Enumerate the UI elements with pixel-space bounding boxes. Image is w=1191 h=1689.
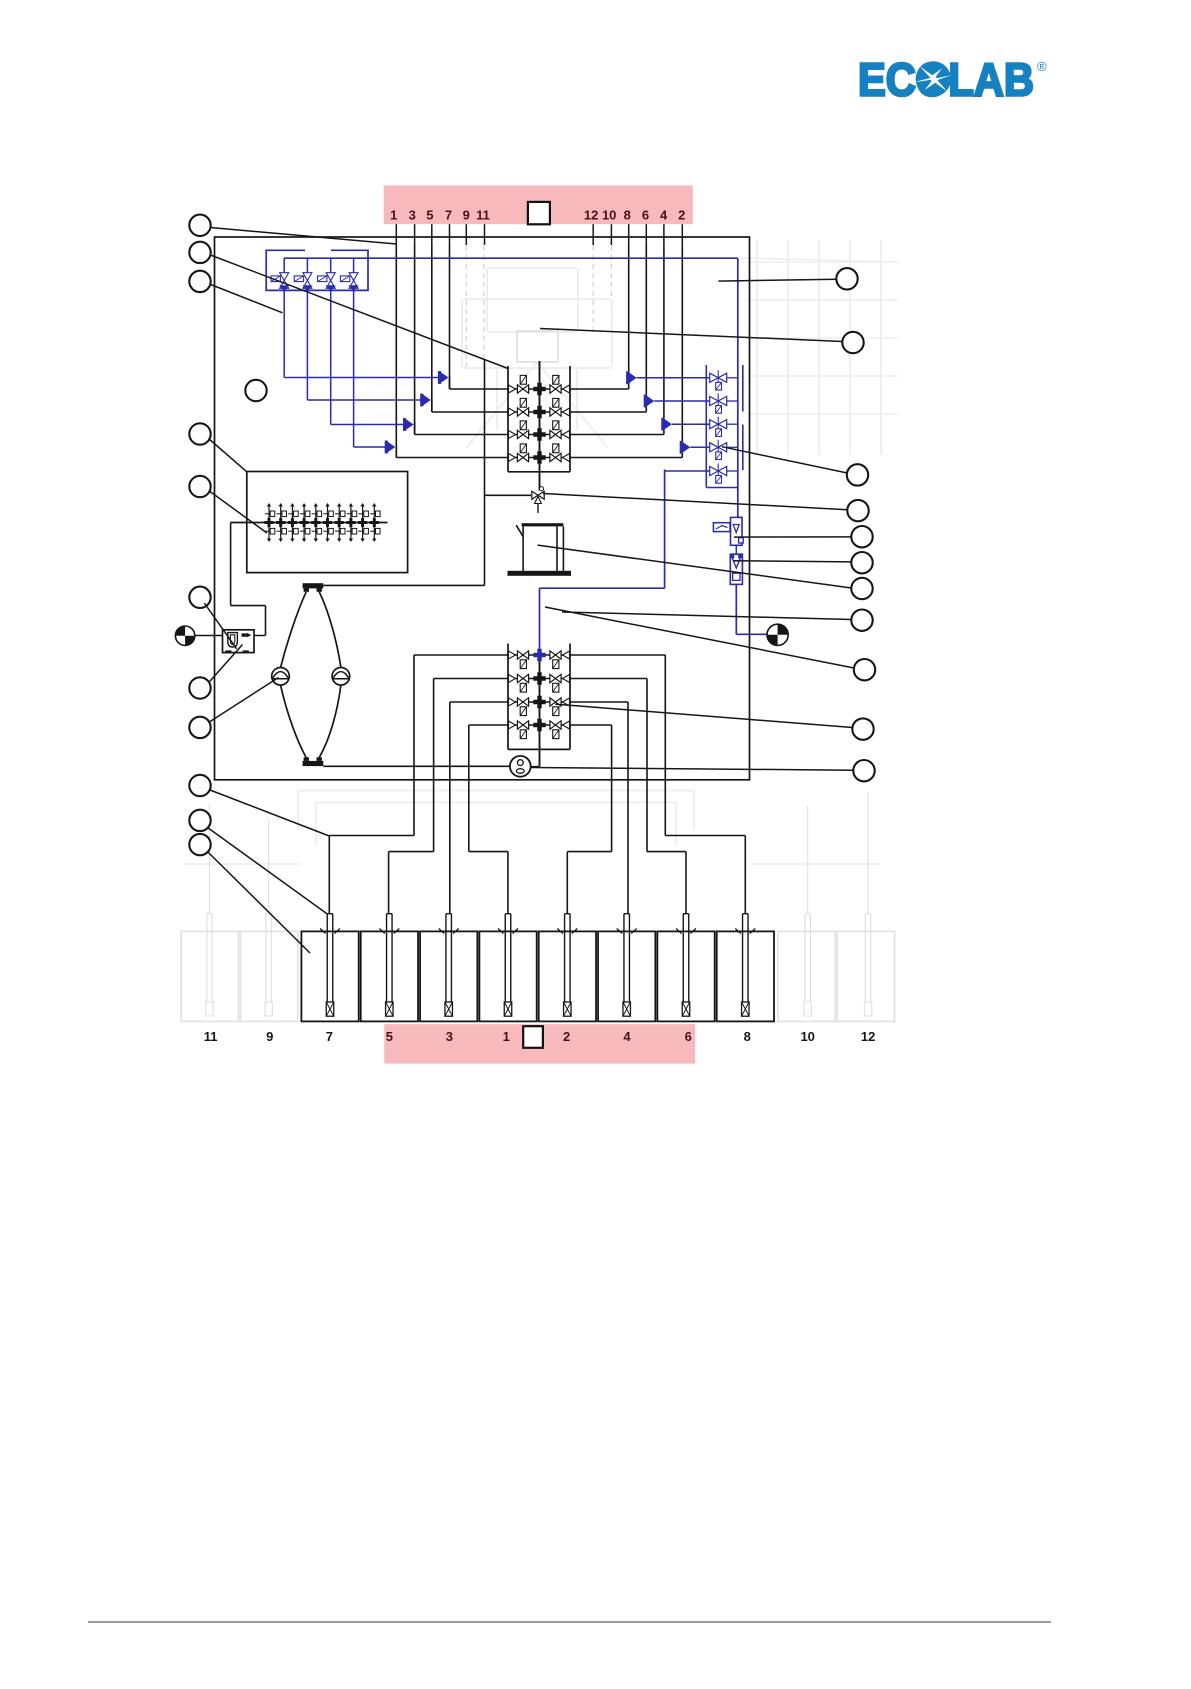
pilot line Y3 to column 3 [330,293,332,425]
svg-text:1: 1 [390,208,397,223]
ghost faded duplicate schematic (background watermark) [181,240,898,1021]
manifold row 1 node [533,383,545,395]
pressure switch attachment [713,523,730,532]
routing line to lance 3 [449,702,451,914]
sampling valve 5 feed line [665,470,710,472]
suction lance 7 [682,914,684,1002]
dosing manifold valve 4 [303,505,305,541]
svg-text:11: 11 [204,1029,218,1044]
dosing valve row 1 right [550,651,561,659]
leader L3 to pilot tubing [211,285,283,313]
callout circle R7 [851,578,872,599]
rinse water tank [522,523,564,526]
flush valve [532,491,544,499]
manifold valve row 4 right [550,453,561,461]
dosing row 4 left line [469,724,612,726]
leader R11 to flow meter [531,768,853,771]
sampling valve 3 [710,420,727,429]
callout circle R4 [847,500,868,521]
svg-text:®: ® [1037,59,1047,74]
dosing manifold valve 6 [327,505,329,541]
svg-text:2: 2 [678,208,685,223]
backflow preventer box [223,630,255,653]
pilot solenoid valve Y3 [330,258,332,292]
dosing row 2 right line [563,675,570,683]
dosing valve row 4 right [550,721,561,729]
routing line to lance 8 [664,655,666,836]
leader R5 to pressure device [734,536,851,538]
solenoid pilot valve box [266,250,368,290]
pilot arrow column 2 to sampling valve 4 [680,441,683,454]
supply line ticks below band (all channels) [395,224,397,245]
pilot arrow column 4 to sampling valve 3 [661,418,664,431]
sampling valve 1 [710,373,727,382]
leader R10 to dosing valve [555,704,852,727]
routing line to lance 1 [468,725,470,852]
svg-text:9: 9 [463,208,470,223]
callout circle L3 [189,271,210,292]
supply column 11 down to flush valve line [484,360,486,585]
manifold row 2 right feed from column 6 [563,408,570,416]
bottom pink highlight band [384,1024,695,1063]
leader L7 to water meter arrow [210,645,243,682]
dosing manifold valve 3 [291,505,293,541]
leader L5 to dosing manifold valves [209,491,267,533]
pilot arrow column 6 to sampling valve 2 [644,395,647,408]
dosing row 3 right line [563,698,570,706]
dosing row 1 node [533,649,545,661]
leader L2 to central manifold [210,255,508,369]
manifold row 3 node [533,428,545,440]
leader R7 to rinse tank [538,545,852,588]
supply column 2 [681,245,683,458]
pilot line Y2 to column 5 [306,293,308,401]
product container 5 [539,931,596,1021]
product container 8 [717,931,774,1021]
callout circle L8 [189,717,210,738]
callout circle L6 [189,587,210,608]
svg-text:5: 5 [386,1029,393,1044]
leader L10 to suction lance [208,828,329,915]
leader R8 to return line [562,612,851,620]
leader L8 to dosing pump [209,678,278,723]
routing line to lance 4 [627,702,629,914]
leader R9 to blue return [545,607,854,668]
sampling valve 4 [710,443,727,452]
callout circle R8 [851,610,872,631]
dosing row 2 left line [434,678,647,680]
flush valve line from column 11 [485,494,532,496]
leader R3 to sampling valve [722,447,848,473]
product container 1 [301,931,358,1021]
svg-text:8: 8 [624,208,631,223]
manifold row 1 right feed from column 8 [563,385,570,393]
pump outlet node [303,761,324,766]
bottom band white box [523,1026,543,1048]
pump suction lines [281,592,307,668]
dosing valve row 1 left [517,651,528,659]
svg-text:5: 5 [426,208,433,223]
dosing row 2 node [533,672,545,684]
svg-text:10: 10 [800,1029,814,1044]
dosing valve row 4 left [517,721,528,729]
manifold row 4 right feed from column 2 [563,454,570,462]
supply column 1 [395,245,397,458]
pump inlet node [303,583,324,588]
blue pilot rail to right cabinet side [284,257,738,259]
manifold valve row 2 right [550,408,561,416]
supply column 4 [663,245,665,435]
svg-text:3: 3 [409,208,416,223]
top pink highlight band [384,186,693,225]
dosing row 4 node [533,719,545,731]
callout circle L7 [189,677,210,698]
callout circle L4 [189,423,210,444]
dosing valve row 2 left [517,674,528,682]
leader L6 to backflow preventer [204,603,236,649]
svg-text:7: 7 [326,1029,333,1044]
product container 2 [361,931,418,1021]
callout circle L5 [189,476,210,497]
svg-text:1: 1 [503,1029,510,1044]
left water sensor symbol [175,626,194,645]
suction lance 4 [504,914,506,1002]
dosing manifold valve 9 [362,505,364,541]
injection valve device [735,545,737,554]
central manifold feed stub [539,361,541,491]
callout circle R11 [853,760,874,781]
product container 3 [420,931,477,1021]
svg-text:6: 6 [685,1029,692,1044]
flow meter [510,756,531,777]
dosing valve row 2 right [550,674,561,682]
callout circle R2 [842,332,863,353]
dosing row 3 node [533,696,545,708]
pilot line Y4 to column 1 [353,293,355,448]
leader L1 to supply line 1 [210,228,396,245]
suction lance 3 [445,914,447,1002]
dosing manifold valve 2 [280,505,282,541]
leader R2 to faded section [540,329,842,342]
callout circle R5 [851,526,872,547]
dosing row 4 right line [563,721,570,729]
leader R1 to pilot rail [718,279,836,281]
svg-text:7: 7 [445,208,452,223]
dosing row 1 left line [414,654,665,656]
callout circle R3 [847,464,868,485]
routing line to lance 2 [611,725,613,852]
dosing pump 1 [272,668,290,686]
callout circle R9 [854,659,875,680]
manifold row 3 right feed from column 4 [563,431,570,439]
manifold valve row 3 left [517,430,528,438]
dosing row 1 right line [563,651,570,659]
dosing manifold valve 7 [338,505,340,541]
svg-text:12: 12 [584,208,598,223]
dosing manifold valve 5 [315,505,317,541]
flush drain line to pump node [323,584,484,586]
suction lance 5 [564,914,566,1002]
leader R4 to flush valve [543,494,848,510]
svg-text:11: 11 [476,208,490,223]
callout circle R1 [836,268,857,289]
callout circle R6 [851,552,872,573]
discharge line to flow meter [323,765,510,767]
dosing manifold centre line [539,656,541,767]
svg-text:6: 6 [642,208,649,223]
suction lance 6 [623,914,625,1002]
main cabinet outline [215,237,750,780]
suction lance 1 [326,914,328,1002]
routing line to lance 6 [646,679,648,852]
pilot line Y1 to column 7 [283,293,285,378]
dosing pump 2 [332,668,350,686]
manifold valve row 3 right [550,430,561,438]
product container 6 [598,931,655,1021]
supply column 5 [431,245,433,412]
dosing solenoid manifold box [247,472,408,573]
sampling valve 2 [710,396,727,405]
manifold row 4 left feed from column 1 [395,445,397,458]
svg-text:3: 3 [446,1029,453,1044]
svg-text:8: 8 [744,1029,751,1044]
callout circle R10 [852,718,873,739]
tank pedestal [508,571,571,575]
dosing manifold valve 10 [373,505,375,541]
manifold row 1 left feed from column 7 [449,378,451,390]
supply column 8 [628,245,630,389]
pilot solenoid valve Y1 [283,258,285,292]
product container 7 [657,931,714,1021]
pump discharge lines [281,685,307,758]
svg-text:9: 9 [266,1029,273,1044]
blue line to water connection [735,584,737,634]
product container 4 [479,931,536,1021]
leader L11 to container [207,851,310,953]
pilot arrow column 8 to sampling valve 1 [626,371,629,384]
svg-text:4: 4 [660,208,668,223]
leader R6 to injection valve [733,561,851,562]
dosing manifold valve 1 [268,505,270,541]
manifold valve row 2 left [517,408,528,416]
supply column 3 [414,245,416,435]
svg-text:12: 12 [861,1029,875,1044]
manifold valve row 4 left [517,453,528,461]
Ecolab logo [858,54,1047,106]
svg-text:10: 10 [602,208,616,223]
leader L9 to lance routing [210,790,329,836]
manifold row 2 node [533,406,545,418]
dosing manifold outlet to water meter [230,523,232,606]
supply column 7 [449,245,451,389]
supply column 6 [645,245,647,412]
footer rule [88,1621,1051,1623]
pilot solenoid valve Y2 [306,258,308,292]
manifold row 3 left feed from column 3 [414,422,416,435]
leader L4 to dosing manifold box [209,439,247,472]
dosing manifold valve 8 [350,505,352,541]
dosing valve row 3 right [550,698,561,706]
svg-text:2: 2 [563,1029,570,1044]
callout circle L2 [189,242,210,263]
central manifold frame [507,366,509,472]
suction lance 8 [742,914,744,1002]
manifold valve row 1 left [517,385,528,393]
top band white box [528,202,550,224]
callout circle L1 [189,215,210,236]
manifold valve row 1 right [550,385,561,393]
svg-text:4: 4 [623,1029,631,1044]
callout circle L9 [189,775,210,796]
callout circle L10 [189,810,210,831]
manifold row 4 node [533,451,545,463]
manifold row 2 left feed from column 5 [431,400,433,413]
dosing row 3 left line [450,701,628,703]
callout circle centre [245,380,266,401]
pressure relief device [731,517,743,545]
routing line to lance 5 [433,679,435,852]
water inlet line [195,635,223,637]
blue return line to dosing manifold [540,587,665,589]
pilot solenoid valve Y4 [353,258,355,292]
sampling valve 5 [710,466,727,475]
right water sensor symbol [767,624,788,645]
suction lance 2 [386,914,388,1002]
dosing manifold frame [507,644,509,750]
dosing manifold main line [231,522,388,524]
sampling valve column rails [705,365,707,488]
callout circle L11 [189,834,210,855]
routing line to lance 7 [413,655,415,836]
dosing valve row 3 left [517,698,528,706]
